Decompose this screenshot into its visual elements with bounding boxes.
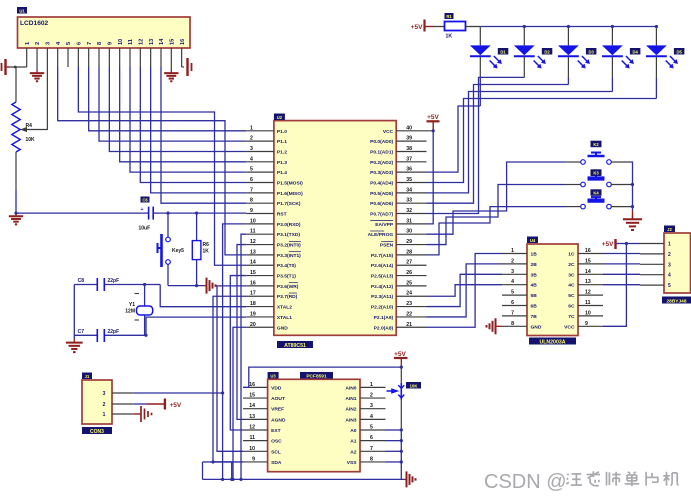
- svg-text:6: 6: [250, 177, 253, 183]
- svg-text:SCL: SCL: [271, 449, 281, 455]
- svg-text:6B: 6B: [531, 304, 538, 310]
- svg-text:39: 39: [406, 136, 412, 142]
- svg-text:11: 11: [128, 39, 134, 45]
- svg-text:3: 3: [370, 403, 373, 409]
- wire LED D1 cathode to MCU: [479, 57, 481, 77]
- ground under LCD pin15: [170, 67, 172, 70]
- svg-text:P3.1(TXD): P3.1(TXD): [277, 232, 300, 238]
- connector J1: [82, 380, 112, 424]
- svg-text:21: 21: [406, 322, 412, 328]
- ground (buttons): [632, 210, 634, 219]
- svg-text:VCC: VCC: [383, 129, 394, 135]
- svg-text:3: 3: [511, 269, 514, 275]
- svg-text:1K: 1K: [203, 249, 210, 255]
- wire buttons right to ground: [611, 161, 629, 163]
- uln pins: [502, 253, 527, 255]
- svg-text:10: 10: [250, 218, 256, 224]
- svg-text:22pF: 22pF: [108, 329, 120, 335]
- svg-text:15: 15: [170, 39, 176, 45]
- svg-text:16: 16: [585, 248, 591, 254]
- ground (crystal): [73, 285, 75, 340]
- svg-text:1B: 1B: [531, 252, 538, 258]
- svg-text:A1: A1: [350, 439, 357, 445]
- svg-text:3B: 3B: [531, 272, 538, 278]
- svg-text:P1.6(MISO): P1.6(MISO): [277, 191, 303, 197]
- svg-text:13: 13: [585, 279, 591, 285]
- svg-text:25: 25: [406, 280, 412, 286]
- adc U3 PCF8591 body: [268, 379, 360, 471]
- svg-text:A0: A0: [350, 428, 357, 434]
- wire +5V down right side: [400, 367, 402, 384]
- wire J1 pin3 to bundle: [134, 392, 223, 394]
- svg-text:4: 4: [668, 273, 671, 279]
- svg-text:5: 5: [668, 283, 671, 289]
- svg-text:19: 19: [250, 311, 256, 317]
- crystal pin marks: [135, 293, 140, 295]
- svg-text:3: 3: [668, 262, 671, 268]
- svg-text:9: 9: [250, 208, 253, 214]
- svg-text:9: 9: [585, 321, 588, 327]
- wires A0 A1 A2 VSS to ground rail: [386, 429, 402, 431]
- svg-text:CON3: CON3: [90, 429, 104, 435]
- svg-text:9: 9: [108, 42, 114, 45]
- svg-text:1: 1: [511, 248, 514, 254]
- resistor R4 10K (pot): [15, 67, 17, 102]
- wire VDD loop: [249, 367, 401, 387]
- svg-text:P0.5(AD5): P0.5(AD5): [370, 191, 393, 197]
- svg-text:4: 4: [511, 279, 514, 285]
- svg-text:1K: 1K: [446, 34, 453, 40]
- svg-text:12: 12: [249, 425, 255, 431]
- svg-text:12: 12: [139, 39, 145, 45]
- power flag left of LCD pin1: [10, 66, 27, 68]
- wire reset net RST: [16, 212, 144, 214]
- svg-text:P0.6(AD6): P0.6(AD6): [370, 201, 393, 207]
- svg-text:34: 34: [406, 187, 412, 193]
- wire K4 to P2.7: [427, 207, 566, 255]
- svg-text:1: 1: [250, 125, 253, 131]
- power flag right of LCD pin16: [182, 66, 184, 68]
- wire P3.0 to bottom rail / J1: [223, 224, 247, 480]
- svg-text:P0.0(AD0): P0.0(AD0): [370, 139, 393, 145]
- svg-text:AGND: AGND: [271, 417, 286, 423]
- svg-text:P1.3: P1.3: [277, 160, 287, 166]
- svg-text:K2: K2: [593, 142, 599, 147]
- svg-text:LCD1602: LCD1602: [20, 20, 49, 27]
- wire LED D5 cathode to MCU: [655, 57, 657, 77]
- svg-text:ALE/PROG: ALE/PROG: [368, 232, 394, 238]
- svg-text:5: 5: [66, 42, 72, 45]
- svg-text:EXT: EXT: [271, 428, 281, 434]
- wire LCD pin6 to P3.4: [78, 67, 246, 265]
- svg-text:+5V: +5V: [411, 24, 423, 31]
- capacitor C8 22pF: [74, 284, 97, 286]
- svg-text:12M: 12M: [125, 309, 135, 315]
- svg-text:P0.4(AD4): P0.4(AD4): [370, 181, 393, 187]
- svg-text:10K: 10K: [26, 137, 36, 143]
- svg-text:18: 18: [250, 301, 256, 307]
- push button K4: [581, 204, 586, 209]
- svg-text:GND: GND: [277, 325, 288, 331]
- svg-text:2: 2: [511, 258, 514, 264]
- svg-text:16: 16: [249, 382, 255, 388]
- svg-text:OSC: OSC: [271, 439, 282, 445]
- mcu label AT89C51: [277, 341, 313, 348]
- svg-text:P2.4(A12): P2.4(A12): [371, 284, 394, 290]
- svg-text:33: 33: [406, 198, 412, 204]
- svg-text:14: 14: [249, 403, 255, 409]
- svg-text:P2.5(A13): P2.5(A13): [371, 274, 394, 280]
- svg-text:7C: 7C: [568, 314, 575, 320]
- svg-text:2: 2: [103, 402, 106, 408]
- LCD pin stubs: [26, 48, 28, 67]
- svg-text:2C: 2C: [568, 262, 575, 268]
- svg-text:P3.4(T0): P3.4(T0): [277, 263, 296, 269]
- svg-text:EA/VPP: EA/VPP: [375, 222, 394, 228]
- svg-text:P2.6(A14): P2.6(A14): [371, 263, 394, 269]
- svg-text:1C: 1C: [568, 252, 575, 258]
- wire P3.1 down: [241, 234, 246, 479]
- wire P2.1 to 2B: [427, 264, 503, 317]
- svg-text:15: 15: [249, 393, 255, 399]
- LCD connector U1: [18, 17, 191, 48]
- svg-text:11: 11: [250, 435, 256, 441]
- svg-text:P2.7(A15): P2.7(A15): [371, 253, 394, 259]
- svg-text:J2: J2: [667, 227, 672, 232]
- svg-text:P3.6(WR): P3.6(WR): [277, 284, 299, 290]
- svg-text:28: 28: [406, 249, 412, 255]
- push button K3: [581, 182, 586, 187]
- svg-text:P2.1(A9): P2.1(A9): [374, 315, 394, 321]
- svg-text:P2.3(A11): P2.3(A11): [371, 294, 393, 300]
- svg-text:U3: U3: [270, 373, 276, 378]
- wire LED D2 cathode to MCU: [523, 57, 525, 77]
- wire P2.0 to 1B: [427, 254, 503, 328]
- svg-text:Key5: Key5: [172, 248, 184, 254]
- photo sensor on AIN0: [387, 390, 393, 392]
- svg-text:24: 24: [406, 291, 412, 297]
- wire LED D3 cathode to MCU: [567, 57, 569, 77]
- svg-text:C7: C7: [78, 329, 85, 335]
- wire P2.3 to 4B: [427, 285, 503, 297]
- svg-text:8: 8: [97, 42, 103, 45]
- LED D5: [655, 27, 657, 46]
- bottom rail wire: [203, 478, 404, 480]
- svg-text:6: 6: [511, 300, 514, 306]
- svg-text:4: 4: [250, 156, 253, 162]
- svg-text:7B: 7B: [531, 314, 538, 320]
- svg-text:AT89C51: AT89C51: [284, 343, 306, 349]
- wire K3 to PSEN: [427, 185, 566, 245]
- svg-text:5: 5: [511, 290, 514, 296]
- svg-text:VSS: VSS: [347, 460, 358, 466]
- svg-text:P0.7(AD7): P0.7(AD7): [370, 212, 393, 218]
- svg-text:P3.2(INT0): P3.2(INT0): [277, 243, 301, 249]
- svg-text:CSDN @: CSDN @: [484, 471, 567, 493]
- LED D1: [479, 27, 481, 46]
- svg-text:5B: 5B: [531, 293, 538, 299]
- svg-text:D4: D4: [632, 49, 638, 54]
- wire +5V down to ULN VCC: [603, 244, 626, 327]
- svg-text:16: 16: [250, 280, 256, 286]
- svg-text:23: 23: [406, 301, 412, 307]
- svg-text:AIN2: AIN2: [345, 407, 356, 413]
- svg-text:32: 32: [406, 208, 412, 214]
- svg-text:17: 17: [250, 291, 256, 297]
- svg-text:40: 40: [406, 125, 412, 131]
- svg-text:R1: R1: [446, 14, 452, 19]
- svg-text:AIN3: AIN3: [345, 417, 356, 423]
- ground (PCF): [403, 478, 407, 480]
- svg-text:SDA: SDA: [271, 460, 282, 466]
- svg-text:14: 14: [250, 260, 256, 266]
- svg-text:31: 31: [406, 218, 412, 224]
- svg-text:P2.2(A10): P2.2(A10): [371, 305, 394, 311]
- svg-text:5: 5: [250, 167, 253, 173]
- svg-text:11: 11: [585, 300, 591, 306]
- svg-text:J1: J1: [85, 374, 90, 379]
- svg-text:27: 27: [406, 260, 412, 266]
- svg-text:1: 1: [103, 412, 106, 418]
- LED D3: [567, 27, 569, 46]
- svg-text:P0.1(AD1): P0.1(AD1): [370, 149, 393, 155]
- svg-text:26: 26: [406, 270, 412, 276]
- svg-text:2: 2: [668, 252, 671, 258]
- pcf pins: [243, 386, 268, 388]
- svg-text:5: 5: [370, 425, 373, 431]
- svg-text:2: 2: [35, 42, 41, 45]
- svg-text:P1.7(SCK): P1.7(SCK): [277, 201, 301, 207]
- svg-text:+5V: +5V: [170, 402, 182, 409]
- svg-text:16: 16: [180, 39, 186, 45]
- svg-text:30: 30: [406, 229, 412, 235]
- svg-text:2: 2: [250, 136, 253, 142]
- svg-text:+: +: [141, 207, 144, 213]
- svg-text:7: 7: [511, 310, 514, 316]
- svg-text:8: 8: [250, 198, 253, 204]
- svg-text:22pF: 22pF: [108, 278, 120, 284]
- svg-text:AIN1: AIN1: [345, 396, 356, 402]
- wire P3.6 to PCF SCL: [217, 286, 246, 451]
- wire K2 to ALE: [565, 161, 581, 163]
- svg-text:U1: U1: [19, 8, 25, 13]
- svg-text:+5V: +5V: [602, 241, 614, 248]
- svg-text:20: 20: [250, 322, 256, 328]
- svg-text:P1.5(MOSI): P1.5(MOSI): [277, 181, 303, 187]
- wire +5V to connector pin1: [626, 243, 640, 245]
- svg-text:P3.7(RD): P3.7(RD): [277, 294, 298, 300]
- svg-text:VDD: VDD: [271, 385, 282, 391]
- wiper wire from LCD pin3: [25, 67, 47, 130]
- svg-text:4B: 4B: [531, 283, 538, 289]
- wire XTAL2: [160, 285, 246, 307]
- svg-text:14: 14: [585, 269, 591, 275]
- svg-text:22: 22: [406, 311, 412, 317]
- svg-text:P1.4: P1.4: [277, 170, 287, 176]
- svg-text:1: 1: [25, 42, 31, 45]
- svg-text:P1.1: P1.1: [277, 139, 287, 145]
- svg-text:R6: R6: [203, 242, 210, 248]
- svg-text:Y1: Y1: [129, 302, 135, 308]
- wire MCU GND down: [233, 327, 246, 479]
- svg-text:13: 13: [249, 414, 255, 420]
- svg-text:PSEN: PSEN: [380, 243, 394, 249]
- LED D4: [611, 27, 613, 46]
- svg-text:K4: K4: [593, 191, 599, 196]
- svg-text:A2: A2: [350, 449, 357, 455]
- svg-text:4C: 4C: [568, 283, 575, 289]
- svg-text:29: 29: [406, 239, 412, 245]
- svg-text:28BYJ48: 28BYJ48: [666, 298, 686, 304]
- svg-text:ULN2003A: ULN2003A: [540, 339, 566, 345]
- svg-text:10K: 10K: [410, 383, 418, 388]
- wire P3.2 to PCF AGND: [237, 245, 246, 420]
- svg-text:3: 3: [46, 42, 52, 45]
- svg-text:38: 38: [406, 146, 412, 152]
- svg-text:7: 7: [87, 42, 93, 45]
- svg-text:10: 10: [249, 446, 255, 452]
- svg-text:8: 8: [370, 456, 373, 462]
- svg-text:11: 11: [250, 229, 256, 235]
- crystal Y1 12M: [144, 285, 146, 307]
- svg-text:15: 15: [585, 258, 591, 264]
- svg-text:10uF: 10uF: [139, 226, 151, 232]
- svg-text:P3.3(INT1): P3.3(INT1): [277, 253, 301, 259]
- wires ULN outputs to connector: [603, 253, 640, 255]
- svg-text:P2.0(A8): P2.0(A8): [374, 325, 394, 331]
- svg-text:4: 4: [370, 414, 373, 420]
- ground under LCD pin2: [36, 67, 38, 70]
- svg-text:8: 8: [511, 321, 514, 327]
- connector J2 28BYJ48: [664, 233, 691, 293]
- svg-text:AOUT: AOUT: [271, 396, 285, 402]
- svg-text:2: 2: [370, 393, 373, 399]
- svg-text:14: 14: [159, 38, 165, 45]
- svg-text:C8: C8: [78, 278, 85, 284]
- svg-text:10: 10: [118, 39, 124, 45]
- svg-text:P0.3(AD3): P0.3(AD3): [370, 170, 393, 176]
- svg-text:C6: C6: [142, 197, 148, 202]
- svg-text:D1: D1: [500, 49, 506, 54]
- svg-text:U4: U4: [530, 238, 536, 243]
- svg-text:RST: RST: [277, 212, 287, 218]
- wire P3.7 to PCF SDA: [213, 296, 246, 462]
- wire LCD D0-D7 staircase to P1.0-P1.7: [89, 67, 247, 131]
- svg-text:5C: 5C: [568, 293, 575, 299]
- svg-text:+5V: +5V: [427, 114, 439, 121]
- svg-text:U2: U2: [277, 115, 283, 120]
- svg-text:1: 1: [370, 382, 373, 388]
- svg-text:P0.2(AD2): P0.2(AD2): [370, 160, 393, 166]
- svg-text:6: 6: [370, 435, 373, 441]
- resistor R1 1K: [445, 22, 466, 31]
- wire VCC to EA/VPP: [427, 131, 434, 224]
- svg-text:P1.2: P1.2: [277, 149, 287, 155]
- wire P2.2 to 3B: [427, 274, 503, 306]
- svg-text:12: 12: [585, 290, 591, 296]
- svg-text:15: 15: [250, 270, 256, 276]
- svg-text:PCF8591: PCF8591: [306, 373, 327, 379]
- svg-text:13: 13: [250, 249, 256, 255]
- ground at J1 pin1: [134, 413, 141, 415]
- svg-text:3: 3: [250, 146, 253, 152]
- svg-text:D5: D5: [676, 49, 682, 54]
- wire LED D4 cathode to MCU: [611, 57, 613, 77]
- svg-text:35: 35: [406, 177, 412, 183]
- push button K2: [581, 160, 586, 165]
- mcu U2 body: [274, 121, 396, 336]
- svg-text:7: 7: [250, 187, 253, 193]
- svg-text:VREF: VREF: [271, 407, 284, 413]
- svg-text:VCC: VCC: [564, 324, 575, 330]
- svg-text:2B: 2B: [531, 262, 538, 268]
- svg-text:10: 10: [585, 310, 591, 316]
- resistor R6 1K: [195, 212, 198, 215]
- svg-text:37: 37: [406, 156, 412, 162]
- svg-text:6: 6: [77, 42, 83, 45]
- svg-text:AIN0: AIN0: [345, 385, 356, 391]
- power +5V at J1 pin2: [134, 403, 147, 405]
- svg-text:D3: D3: [588, 49, 594, 54]
- svg-text:P3.5(T1): P3.5(T1): [277, 274, 296, 280]
- svg-text:3: 3: [103, 391, 106, 397]
- svg-text:7: 7: [370, 446, 373, 452]
- wire P3.5 to PCF EXT: [230, 276, 246, 430]
- wire to reset ground: [168, 285, 203, 287]
- svg-text:D2: D2: [544, 49, 550, 54]
- push button Key5: [166, 212, 169, 215]
- ground (reset): [203, 285, 207, 287]
- svg-text:P3.0(RXD): P3.0(RXD): [277, 222, 301, 228]
- ground under R4: [14, 212, 17, 215]
- LED supply rail: [466, 26, 481, 28]
- svg-text:13: 13: [149, 39, 155, 45]
- mcu pins: [246, 130, 274, 132]
- svg-text:36: 36: [406, 167, 412, 173]
- svg-text:XTAL2: XTAL2: [277, 305, 292, 311]
- svg-text:12: 12: [250, 239, 256, 245]
- wire LCD pin4 to P3.3: [58, 67, 247, 255]
- svg-text:K3: K3: [593, 171, 599, 176]
- svg-text:1: 1: [668, 242, 671, 248]
- svg-text:9: 9: [252, 456, 255, 462]
- wire XTAL1: [146, 317, 246, 335]
- capacitor C6 10uF: [148, 207, 150, 220]
- svg-text:P1.0: P1.0: [277, 129, 287, 135]
- svg-text:6C: 6C: [568, 304, 575, 310]
- ground ULN GND pin: [499, 325, 502, 327]
- capacitor C7 22pF: [74, 334, 97, 336]
- driver U4 ULN2003A body: [527, 244, 578, 336]
- junction dots bottom rail: [231, 478, 234, 481]
- svg-text:GND: GND: [531, 324, 542, 330]
- svg-text:XTAL1: XTAL1: [277, 315, 292, 321]
- LED D2: [523, 27, 525, 46]
- svg-text:3C: 3C: [568, 272, 575, 278]
